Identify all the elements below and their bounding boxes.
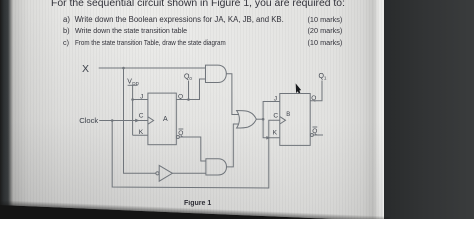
OR gate G3 [237, 111, 257, 129]
flip-flop A clock chevron [148, 117, 154, 124]
bottom dark wedge [0, 205, 390, 240]
wire OR to J of B [263, 102, 280, 120]
svg-text:X: X [82, 63, 89, 75]
junction on X line [122, 67, 125, 70]
flip-flop B clock chevron [280, 117, 286, 124]
svg-text:A: A [163, 116, 168, 123]
item c [63, 38, 69, 47]
item b [63, 26, 70, 35]
wire Qbar of B [313, 134, 323, 136]
svg-text:J: J [274, 95, 277, 102]
svg-text:C: C [273, 112, 278, 119]
junction on clock line [111, 119, 114, 122]
svg-text:Clock: Clock [79, 116, 98, 125]
header line 1 [51, 0, 345, 9]
junction OR output [262, 118, 265, 121]
svg-text:1: 1 [324, 75, 327, 80]
power VDD bar [128, 84, 138, 86]
svg-text:Q: Q [312, 128, 317, 135]
wire Q of B to Q1 [310, 81, 322, 101]
Qbar of B bubble [310, 134, 313, 137]
wire Qbar of A to AND2 [179, 137, 206, 161]
svg-text:0: 0 [189, 76, 192, 81]
arrowhead into K of B [266, 136, 270, 140]
left dark bezel [0, 0, 13, 219]
wire inverter output to AND2 [172, 172, 206, 174]
Qbar of A bubble [176, 136, 179, 139]
inverter triangle [159, 165, 172, 181]
svg-text:B: B [286, 112, 290, 118]
arrowhead into C of A [135, 119, 139, 123]
wire AND1 output to OR [226, 74, 238, 115]
svg-text:C: C [139, 113, 144, 120]
inverter bubble [156, 172, 159, 175]
AND gate G2 [206, 159, 227, 175]
wire Q of A to AND1 [176, 79, 205, 100]
wire Q0 label stub [188, 81, 190, 100]
wire X horizontal [99, 67, 206, 69]
item a [63, 15, 70, 24]
flip-flop B box [280, 94, 310, 146]
AND gate G1 [206, 65, 227, 82]
wire OR to K of B [263, 119, 280, 138]
flip-flop A box [148, 93, 176, 145]
figure caption [184, 200, 211, 207]
svg-text:J: J [140, 94, 143, 101]
svg-text:DD: DD [132, 81, 139, 86]
wire VDD stem to J and K of A [133, 85, 148, 135]
wire OR output [256, 118, 263, 120]
svg-text:K: K [139, 129, 144, 136]
wire Clock to C of A [99, 120, 148, 122]
wire X down to inverter [124, 68, 156, 173]
right dark band [384, 0, 474, 219]
bottom soft shadow above wedge [0, 200, 390, 221]
svg-text:K: K [273, 130, 278, 137]
wire clock riser, bottom run, riser to C of B [112, 120, 280, 188]
junction Q0 stub [187, 98, 190, 101]
junction J of A [131, 98, 134, 101]
wire AND2 output to OR [227, 124, 239, 167]
bottom-left vignette [0, 0, 383, 219]
page vertical shading [0, 0, 383, 219]
mouse cursor [296, 84, 301, 93]
